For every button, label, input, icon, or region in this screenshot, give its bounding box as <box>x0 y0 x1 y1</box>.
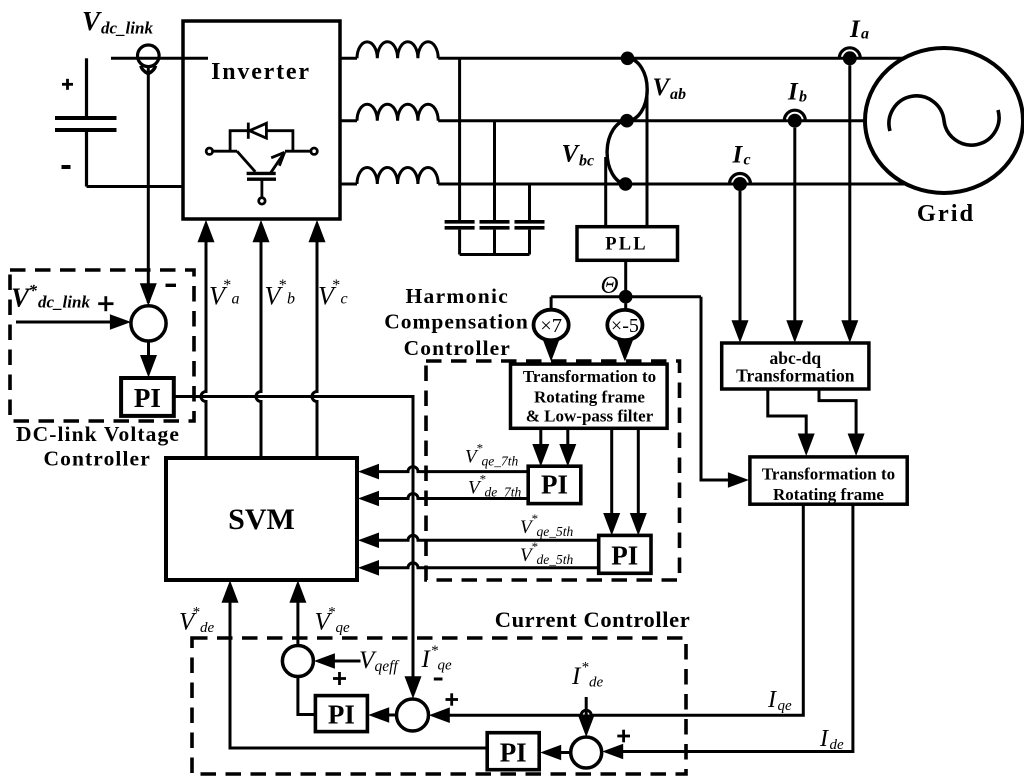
wire PI qe output to V_qeff summer <box>298 677 316 715</box>
label V*_dc_link <box>11 281 90 313</box>
wire phase b <box>340 119 870 122</box>
label + polarity plus <box>62 79 73 90</box>
wire phase c <box>340 183 908 186</box>
label I_qe <box>767 687 792 714</box>
svg-text:Transformation to: Transformation to <box>762 465 895 484</box>
svg-text:qe: qe <box>336 620 351 636</box>
inductor La (phase a filter coil) <box>357 42 438 59</box>
svg-text:I: I <box>787 79 799 106</box>
wire LPF output to PI 5th (left) <box>603 428 620 535</box>
wire phase a <box>340 57 905 60</box>
current controller dashed box <box>192 638 686 774</box>
wire V_qeff input <box>314 653 361 669</box>
label V_qe_7th <box>465 441 518 469</box>
label DC-link Voltage Controller <box>16 422 180 471</box>
svg-text:PI: PI <box>611 541 638 571</box>
label I*_de <box>571 660 604 691</box>
label I*_qe <box>421 643 453 674</box>
svg-text:bc: bc <box>579 153 594 170</box>
filter capacitor Cb <box>480 121 510 255</box>
inverter block U1 <box>183 21 340 219</box>
svg-text:Θ: Θ <box>600 272 618 299</box>
svg-text:de_5th: de_5th <box>537 552 574 567</box>
filter capacitor Cc <box>515 184 545 255</box>
node b tap (junction dot on phase b) <box>620 114 634 128</box>
svg-text:a: a <box>861 26 869 43</box>
voltage sensor V_dc_link (circle + arrow chevron) <box>138 45 160 74</box>
label + (plus at de summer right) <box>617 730 630 743</box>
svg-text:qe_7th: qe_7th <box>482 454 519 469</box>
svg-text:*: * <box>192 605 200 621</box>
wire capacitor bottom bus <box>460 253 530 256</box>
capacitor C_dc (DC-link capacitor) <box>55 58 117 186</box>
wire LPF output to PI 5th (right) <box>630 428 647 535</box>
inductor Lc (phase c filter coil) <box>357 167 438 184</box>
label Harmonic Compensation Controller <box>384 284 529 360</box>
label - (minus at qe summer) <box>434 678 443 681</box>
label V_ab <box>653 74 687 103</box>
label + (plus at qe summer right) <box>446 693 459 705</box>
svg-text:I: I <box>732 142 744 169</box>
svg-text:qe_5th: qe_5th <box>537 524 574 539</box>
svg-text:V: V <box>653 74 672 101</box>
wire dc summer to PI <box>140 341 157 378</box>
PI controller 7th harmonic <box>528 466 581 503</box>
svg-text:Rotating frame: Rotating frame <box>773 485 884 504</box>
svg-text:c: c <box>744 152 751 169</box>
wire V_de_7th to SVM (hop at x=413) <box>358 491 528 507</box>
arrow x-5 to transformation box <box>616 339 633 362</box>
V_ab measurement arc <box>627 58 647 120</box>
wire I_a to abc-dq <box>841 65 858 343</box>
grid source G1 <box>865 48 1023 193</box>
summer (DC-link voltage error) <box>131 306 166 341</box>
label V_qe_5th <box>520 511 573 539</box>
PI controller DC-link <box>121 378 174 416</box>
svg-text:Transformation: Transformation <box>736 366 855 386</box>
arrow qe summer to PI qe <box>368 707 396 723</box>
svg-text:I: I <box>849 16 861 43</box>
wire PLL output <box>624 260 627 296</box>
svg-text:PI: PI <box>541 470 568 500</box>
label V_c* <box>318 277 348 311</box>
inductor Lb (phase b filter coil) <box>357 104 438 121</box>
V_bc measurement arc <box>607 121 627 184</box>
filter capacitor Ca <box>445 58 475 254</box>
label + (plus at dc summer) <box>98 296 113 311</box>
svg-text:PI: PI <box>328 700 355 730</box>
svg-text:V: V <box>562 141 581 168</box>
wire I_qe feedback (with hop over I*_de stub) <box>429 504 804 723</box>
svg-text:DC-link Voltage: DC-link Voltage <box>16 422 180 446</box>
arrow de summer to PI de <box>540 745 571 761</box>
current sensor I_c <box>730 174 751 192</box>
svg-text:PI: PI <box>500 738 527 768</box>
wire V*_qe to SVM <box>289 580 306 645</box>
label V_bc <box>562 141 595 170</box>
svg-text:Inverter: Inverter <box>211 59 311 85</box>
transformation to rotating frame block <box>750 457 907 504</box>
harmonic compensation controller dashed box <box>426 361 680 580</box>
arrow I*_qe into qe summer (minus) <box>405 676 422 699</box>
IGBT symbol Q1 (with anti-parallel diode) <box>206 123 317 204</box>
wire V*_dc_link reference <box>16 321 115 324</box>
svg-text:dc_link: dc_link <box>38 293 90 312</box>
wire V_b* SVM to inverter (hop at y=396.5) <box>253 220 270 458</box>
label V_de_7th <box>468 472 521 500</box>
wire drop to x7 <box>550 297 553 310</box>
label V_a* <box>209 277 240 311</box>
svg-text:c: c <box>341 291 348 308</box>
arrow V_dc_link into summer (minus) <box>140 283 157 306</box>
svg-text:Compensation: Compensation <box>384 310 529 334</box>
label I_de <box>819 726 844 753</box>
wire theta to rotating-frame transform <box>701 297 732 480</box>
PI controller 5th harmonic <box>599 535 651 573</box>
label V_qeff <box>359 647 400 675</box>
svg-text:& Low-pass filter: & Low-pass filter <box>526 407 654 426</box>
svg-text:b: b <box>287 291 295 308</box>
arrow into transformation-to-rotating-frame left <box>728 472 749 488</box>
wire V_dc_link feedback (vertical) <box>147 67 150 304</box>
wire V_c* SVM to inverter (hop at y=396.5) <box>309 220 326 458</box>
wire V_a* SVM to inverter (hop at y=396.5) <box>198 220 215 458</box>
label V_b* <box>265 277 296 311</box>
wire V_ab to PLL <box>646 95 649 227</box>
label I_a <box>849 16 869 43</box>
svg-text:a: a <box>232 291 240 308</box>
PI controller qe current <box>315 696 367 732</box>
svg-text:*: * <box>328 605 336 621</box>
label V_de_5th <box>520 539 573 567</box>
current sensor I_a <box>839 48 860 66</box>
multiplier x-5 <box>607 310 642 340</box>
node c tap (junction dot on phase c) <box>619 177 633 191</box>
svg-text:qe: qe <box>438 658 453 674</box>
DC-link voltage controller dashed box <box>10 270 194 421</box>
svg-text:qe: qe <box>778 698 793 714</box>
svg-text:Transformation to: Transformation to <box>523 367 656 386</box>
svg-text:de: de <box>589 675 604 691</box>
svg-text:qeff: qeff <box>375 658 401 675</box>
SVM block <box>166 458 357 580</box>
wire V*_de to SVM <box>222 580 488 748</box>
svg-text:×-5: ×-5 <box>611 315 639 337</box>
node theta junction dot <box>619 290 633 304</box>
svg-text:Harmonic: Harmonic <box>406 284 510 308</box>
wire V_qe_7th to SVM (hop at x=413) <box>358 464 528 480</box>
current sensor I_b <box>784 110 805 127</box>
arrow x7 to transformation box <box>543 339 560 362</box>
wire theta distribution horizontal <box>551 295 701 298</box>
label V*_de <box>179 605 215 637</box>
svg-text:I: I <box>767 687 777 713</box>
PI controller de current <box>487 733 539 770</box>
svg-text:de: de <box>830 737 845 753</box>
wire abc-dq output d <box>819 389 865 456</box>
svg-text:V: V <box>82 6 102 36</box>
svg-text:*: * <box>581 660 589 676</box>
wire I_de feedback <box>602 504 853 759</box>
svg-text:PI: PI <box>134 383 161 413</box>
wire drop to x-5 <box>624 304 627 309</box>
wire LPF output to PI 7th (left) <box>532 428 549 466</box>
svg-text:ab: ab <box>670 86 686 103</box>
svg-text:SVM: SVM <box>228 503 295 536</box>
svg-text:Controller: Controller <box>44 447 151 471</box>
wire DC PI output to I*_qe (horizontal then down) <box>174 397 413 683</box>
wire DC+ top rail <box>111 57 208 60</box>
svg-text:b: b <box>799 89 807 106</box>
transformation to rotating frame and low-pass filter block <box>511 364 668 428</box>
svg-text:Current Controller: Current Controller <box>495 607 691 632</box>
svg-text:*: * <box>223 277 231 294</box>
wire abc-dq output q <box>768 389 815 456</box>
label - polarity minus <box>62 165 71 169</box>
svg-text:*: * <box>332 277 340 294</box>
wire I_c to abc-dq <box>732 191 749 343</box>
svg-text:I: I <box>819 726 829 752</box>
svg-text:PLL: PLL <box>605 235 648 255</box>
wire LPF output to PI 7th (right) <box>559 428 576 466</box>
svg-text:de_7th: de_7th <box>485 485 522 500</box>
multiplier x7 <box>534 310 569 341</box>
label V_dc_link <box>82 6 153 38</box>
svg-text:Grid: Grid <box>917 200 975 227</box>
wire V_bc to PLL <box>604 157 607 227</box>
wire I_b to abc-dq <box>786 128 803 343</box>
svg-text:×7: ×7 <box>540 315 562 337</box>
abc-dq transformation block <box>722 343 869 389</box>
svg-text:de: de <box>200 620 215 636</box>
summer qe current error <box>397 699 429 731</box>
label I_b <box>787 79 807 106</box>
label + (plus at qeff summer bottom) <box>333 672 346 685</box>
wire DC- bottom rail <box>87 185 185 188</box>
wire V_qe_5th to SVM (hop at x=413) <box>358 533 599 549</box>
svg-text:Controller: Controller <box>404 336 511 360</box>
label I_c <box>732 142 751 169</box>
label V*_qe <box>315 605 351 637</box>
summer V_qeff <box>282 646 313 677</box>
label - (minus at dc summer) <box>166 284 177 287</box>
svg-text:dc_link: dc_link <box>101 19 153 38</box>
wire I*_de stub <box>578 697 595 737</box>
PLL block <box>577 227 678 261</box>
svg-text:Rotating frame: Rotating frame <box>534 388 645 407</box>
summer de current error <box>571 737 602 768</box>
svg-text:*: * <box>29 281 38 300</box>
svg-text:*: * <box>278 277 286 294</box>
arrow into dc summer (plus) <box>110 314 131 330</box>
wire V_de_5th to SVM (hop at x=413) <box>358 560 599 576</box>
node a tap (junction dot on phase a) <box>621 52 635 66</box>
